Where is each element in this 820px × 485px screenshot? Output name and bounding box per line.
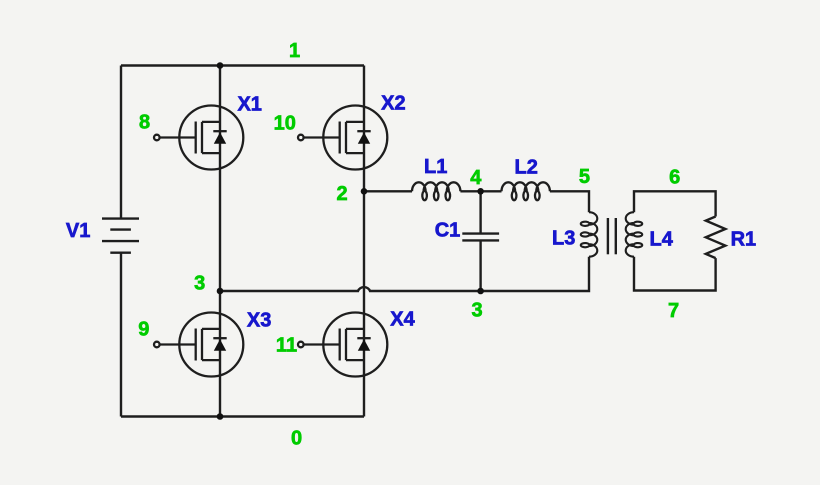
svg-text:2: 2 xyxy=(336,183,347,205)
svg-text:11: 11 xyxy=(276,335,297,357)
svg-text:V1: V1 xyxy=(66,220,90,242)
svg-text:5: 5 xyxy=(579,166,590,188)
svg-text:10: 10 xyxy=(274,112,296,134)
svg-text:C1: C1 xyxy=(435,220,461,242)
svg-text:3: 3 xyxy=(472,300,483,322)
svg-text:X1: X1 xyxy=(237,94,261,116)
svg-text:L3: L3 xyxy=(552,228,575,250)
svg-text:X2: X2 xyxy=(381,93,405,115)
svg-text:8: 8 xyxy=(139,112,150,134)
svg-text:4: 4 xyxy=(470,167,482,189)
svg-text:X3: X3 xyxy=(247,310,271,332)
svg-text:L2: L2 xyxy=(515,157,538,179)
svg-text:L1: L1 xyxy=(424,156,447,178)
svg-text:7: 7 xyxy=(668,300,679,322)
svg-text:R1: R1 xyxy=(731,229,757,251)
svg-text:6: 6 xyxy=(669,166,680,188)
svg-text:X4: X4 xyxy=(390,309,415,331)
svg-text:0: 0 xyxy=(291,428,302,450)
svg-text:3: 3 xyxy=(194,272,205,294)
svg-text:9: 9 xyxy=(138,319,149,341)
svg-text:1: 1 xyxy=(289,40,300,62)
svg-text:L4: L4 xyxy=(650,228,674,250)
